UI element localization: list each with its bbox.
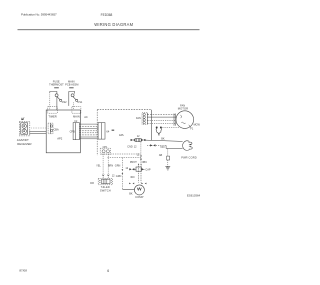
display board box B left edge <box>96 110 98 156</box>
svg-text:CS1: CS1 <box>77 101 82 104</box>
feed vertical <box>151 110 153 141</box>
cold control <box>131 139 145 142</box>
svg-text:MCW: MCW <box>194 124 201 127</box>
power cord arrow <box>22 118 25 120</box>
main sub-box <box>72 107 81 114</box>
svg-text:SWITCH: SWITCH <box>100 188 111 192</box>
pin mark <box>112 130 115 131</box>
svg-text:CAP: CAP <box>145 168 150 171</box>
svg-text:AP2: AP2 <box>57 137 63 141</box>
connector CON on board A <box>48 123 53 134</box>
wire: board B top to fan feed <box>97 109 151 111</box>
wire fan 1 <box>147 113 176 115</box>
svg-text:AB: AB <box>159 154 163 157</box>
wire to service cord <box>166 148 183 150</box>
lamp/switch assembly <box>98 178 112 185</box>
svg-text:AC: AC <box>84 115 88 119</box>
ribbon cable <box>79 124 98 139</box>
svg-text:300: 300 <box>130 176 135 179</box>
switch S1 leg <box>73 102 75 110</box>
switch S2 leg <box>49 94 51 110</box>
svg-text:Publication No. 5995443657: Publication No. 5995443657 <box>21 12 57 16</box>
fan motor M1 <box>176 111 194 129</box>
svg-text:CPB: CPB <box>70 131 75 134</box>
svg-text:TIMER: TIMER <box>48 115 56 119</box>
svg-text:12: 12 <box>112 175 115 178</box>
svg-text:OBC: OBC <box>142 161 148 164</box>
svg-text:64: 64 <box>106 130 109 134</box>
svg-text:ES610364: ES610364 <box>187 193 201 197</box>
svg-text:RECEIVER: RECEIVER <box>17 142 31 146</box>
wire fan 4 <box>147 123 176 125</box>
wire: lamp branch (dashed) <box>108 157 141 159</box>
wire BK line <box>145 140 182 141</box>
ground branch <box>167 149 170 167</box>
svg-text:EPL: EPL <box>119 134 124 137</box>
wire thermostat to fan (dashed) <box>162 126 179 128</box>
stub left <box>130 169 145 171</box>
compressor terminals <box>129 183 134 185</box>
svg-text:GRN: GRN <box>115 165 121 168</box>
svg-text:BK: BK <box>161 137 165 140</box>
svg-text:12: 12 <box>134 146 137 149</box>
compressor <box>134 185 144 195</box>
svg-text:F1: F1 <box>190 128 194 131</box>
disconnect on feed <box>140 155 142 159</box>
terminal 2 <box>22 129 26 133</box>
svg-text:FED368: FED368 <box>101 13 113 17</box>
svg-text:MAIN: MAIN <box>73 115 80 119</box>
svg-text:VIO: VIO <box>160 146 164 149</box>
svg-text:BRN: BRN <box>108 165 113 168</box>
svg-text:12: 12 <box>137 153 140 156</box>
wire CP1 drop right <box>107 154 109 178</box>
ribbon header on board B <box>98 123 105 140</box>
wire VIO disconnect <box>147 145 166 147</box>
wire: cord to board <box>29 132 46 134</box>
ribbon header on board A <box>73 123 79 140</box>
switch S1 <box>69 92 78 106</box>
wire CP1 drop left <box>102 154 104 178</box>
svg-text:GRN: GRN <box>116 175 122 178</box>
svg-text:PCB ASSM: PCB ASSM <box>65 83 78 87</box>
svg-text:D: D <box>158 134 160 137</box>
svg-text:6: 6 <box>107 269 109 273</box>
svg-text:CBA: CBA <box>54 128 59 131</box>
svg-text:DR: DR <box>90 182 94 185</box>
svg-text:PROT: PROT <box>130 161 137 164</box>
svg-text:WIRING DIAGRAM: WIRING DIAGRAM <box>94 22 133 27</box>
svg-text:87/08: 87/08 <box>19 269 27 273</box>
defrost thermostat plug pins <box>156 127 162 135</box>
switch S2 <box>50 92 62 111</box>
wire GRN branch <box>121 158 123 170</box>
compressor feed drop <box>140 142 142 164</box>
wire: cord to board <box>29 130 46 132</box>
svg-text:CS2: CS2 <box>62 101 67 104</box>
svg-text:MOTOR: MOTOR <box>178 107 188 111</box>
ground <box>165 166 170 170</box>
fan plug hatch <box>174 114 176 126</box>
svg-text:BK: BK <box>129 192 133 195</box>
timer sub-box <box>48 107 58 114</box>
wire fan 3 <box>147 120 175 122</box>
svg-text:PWR CORD: PWR CORD <box>181 156 197 160</box>
wire tick to F1 <box>189 125 191 128</box>
wire: cord to board (dotted) <box>31 127 46 129</box>
svg-text:FAN: FAN <box>136 117 141 120</box>
terminal block body <box>21 123 28 134</box>
wire fan 2 <box>147 116 175 118</box>
svg-text:12: 12 <box>125 167 128 170</box>
terminal 1 <box>22 124 26 128</box>
control board box A <box>46 110 80 153</box>
svg-text:CND: CND <box>127 146 133 149</box>
header rule <box>18 29 200 31</box>
svg-text:YEL: YEL <box>96 165 101 168</box>
svg-text:12: 12 <box>137 135 140 138</box>
overload relay <box>136 167 141 171</box>
terminal block dashed enclosure <box>19 121 30 135</box>
relay verticals <box>138 164 140 183</box>
terminal marks <box>102 175 109 177</box>
svg-text:COMP: COMP <box>135 195 144 199</box>
service cord plug <box>183 141 193 151</box>
wire: CP1 to compressor (dashed) <box>101 153 141 155</box>
svg-text:THERMOST: THERMOST <box>49 83 64 87</box>
